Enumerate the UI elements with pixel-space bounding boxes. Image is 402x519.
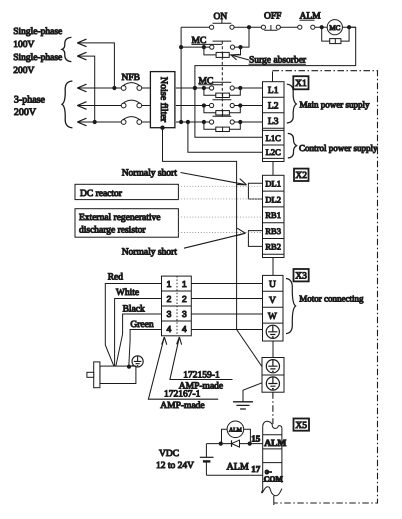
noise filter box <box>150 72 175 128</box>
arrow phase T <box>77 118 121 126</box>
svg-text:ALM: ALM <box>227 462 249 473</box>
svg-text:172159-1: 172159-1 <box>183 371 220 381</box>
wire pin15 <box>206 443 263 445</box>
wire ON rail <box>180 27 182 122</box>
wire noise filter earth <box>163 128 237 330</box>
terminal L2 <box>268 101 279 111</box>
svg-text:DL1: DL1 <box>265 179 281 189</box>
surge absorber L1 <box>204 88 240 98</box>
junction dot coil return at L1 <box>193 86 197 90</box>
label NFB <box>122 73 140 83</box>
svg-text:COM: COM <box>264 474 284 483</box>
breaker NFB pole 1 <box>121 83 150 91</box>
brace main power supply <box>287 84 297 123</box>
coil MC <box>327 20 342 35</box>
svg-text:discharge resistor: discharge resistor <box>79 225 146 235</box>
surge absorber across coil <box>322 27 349 43</box>
svg-text:External regenerative: External regenerative <box>79 213 161 223</box>
svg-text:MC: MC <box>329 24 340 32</box>
junction dot noise filter earth <box>160 126 164 130</box>
connector X5 outline <box>261 421 281 505</box>
label MC main <box>199 76 223 86</box>
wire ground block to earth <box>243 383 262 402</box>
wire coil return <box>195 27 356 88</box>
connector X5 cells <box>263 435 282 482</box>
svg-text:Noise filter: Noise filter <box>158 77 169 123</box>
box DC reactor <box>75 184 178 199</box>
label Single-phase 100V <box>13 27 62 50</box>
svg-text:White: White <box>116 288 139 298</box>
wire U phase <box>191 283 262 285</box>
dotted link resistor RB3 <box>178 232 262 234</box>
label Black wire <box>116 304 162 366</box>
junction dot motor earth <box>127 365 131 369</box>
svg-text:Single-phase: Single-phase <box>13 27 62 37</box>
svg-text:L3: L3 <box>268 117 279 127</box>
svg-text:12 to 24V: 12 to 24V <box>156 461 194 471</box>
junction dots rail <box>179 25 251 49</box>
dotted link DC reactor DL1 <box>178 185 262 187</box>
wire W phase <box>191 313 262 315</box>
label Normaly short top <box>122 168 247 185</box>
jumper RB3 RB2 <box>248 231 262 247</box>
contact ALM <box>298 12 321 30</box>
breaker NFB pole 3 <box>121 117 150 125</box>
terminal block X3 <box>263 275 284 341</box>
terminal V <box>269 296 276 306</box>
terminal L1 <box>268 86 279 96</box>
svg-text:X2: X2 <box>295 171 307 181</box>
label ALM signal <box>227 462 249 473</box>
svg-text:X3: X3 <box>295 272 307 282</box>
contact MC L3 <box>176 116 263 124</box>
wire pin4 row <box>191 329 262 331</box>
label Normaly short bottom <box>122 228 246 257</box>
arrow input 100V <box>77 39 114 88</box>
svg-text:4: 4 <box>182 324 187 334</box>
svg-text:1: 1 <box>167 279 172 289</box>
svg-text:Black: Black <box>123 304 145 314</box>
wire X1 stub to enclosure <box>272 72 274 82</box>
svg-text:AMP-made: AMP-made <box>179 382 223 392</box>
dotted link DC reactor DL2 <box>178 198 262 200</box>
svg-text:ALM: ALM <box>229 428 242 434</box>
label Main power supply <box>300 99 370 109</box>
junction dots L1 row <box>193 86 243 90</box>
label X3 <box>294 269 309 282</box>
wire pin4 to ground block diagonal <box>237 330 262 367</box>
label X1 <box>293 76 308 89</box>
svg-text:L1C: L1C <box>266 133 281 143</box>
svg-text:RB2: RB2 <box>265 242 281 252</box>
junction dots relay <box>219 442 252 446</box>
label pin O-COM <box>264 466 284 484</box>
label 172159-1 AMP-made <box>179 371 223 392</box>
svg-text:3: 3 <box>182 309 187 319</box>
junction dots input taps <box>93 86 117 124</box>
svg-text:ALM: ALM <box>264 439 286 449</box>
connector pin numbers row2 <box>167 294 187 304</box>
connector pin numbers row4 <box>167 324 187 334</box>
motor earth symbol circle <box>132 356 143 367</box>
wire V phase <box>191 298 262 300</box>
label pin number 17 <box>251 464 260 474</box>
svg-text:ON: ON <box>214 12 228 22</box>
wire pin17 <box>206 474 263 476</box>
svg-text:X1: X1 <box>295 79 307 89</box>
label Red wire <box>105 273 161 367</box>
svg-text:L1: L1 <box>268 86 279 96</box>
pushbutton ON <box>210 12 235 29</box>
label 3-phase 200V <box>14 94 46 118</box>
svg-text:V: V <box>269 296 276 306</box>
terminal W <box>268 312 277 322</box>
svg-text:100V: 100V <box>13 40 34 50</box>
svg-text:RB3: RB3 <box>265 226 281 236</box>
surge absorber L2 <box>204 106 240 116</box>
svg-text:NFB: NFB <box>122 73 140 83</box>
terminal L1C <box>266 133 281 143</box>
wire control top line <box>181 26 356 28</box>
terminal earth upper <box>266 360 279 373</box>
terminal RB1 <box>265 210 281 220</box>
contact MC L2 <box>176 100 263 108</box>
contact MC L1 <box>176 82 263 90</box>
terminal U <box>269 280 276 290</box>
arrow input single 200V <box>77 52 94 122</box>
contact MC auxiliary <box>181 27 249 49</box>
label VDC 12 to 24V <box>156 449 194 471</box>
terminal block X1 <box>263 82 285 162</box>
motor M <box>87 362 136 388</box>
svg-text:OFF: OFF <box>264 12 281 22</box>
battery VDC <box>200 444 214 476</box>
arrow phase S <box>77 102 121 110</box>
terminal L3 <box>268 117 279 127</box>
enclosure chain line <box>273 71 378 503</box>
svg-text:W: W <box>268 312 277 322</box>
terminal DL2 <box>265 194 281 204</box>
terminal DL1 <box>265 179 281 189</box>
svg-text:3-phase: 3-phase <box>14 94 46 105</box>
brace motor connecting <box>286 279 296 334</box>
svg-text:X5: X5 <box>295 421 307 431</box>
terminal L2C <box>266 147 281 157</box>
brace single-phase <box>62 37 71 61</box>
svg-text:Main power supply: Main power supply <box>300 99 370 109</box>
svg-text:Normaly short: Normaly short <box>122 247 178 257</box>
svg-text:Motor connecting: Motor connecting <box>299 294 364 304</box>
terminal RB3 <box>265 226 281 236</box>
connector motor 4x2 <box>162 276 192 336</box>
svg-text:17: 17 <box>251 464 260 474</box>
label Motor connecting <box>299 294 364 304</box>
junction dots L3 row <box>179 120 242 124</box>
wire X2 to X3 <box>272 258 274 276</box>
label X2 <box>294 169 309 182</box>
box external regenerative discharge resistor <box>75 209 178 238</box>
arrow to connector right half <box>170 337 233 380</box>
ground earth symbol <box>233 402 253 409</box>
wire L2C tap <box>188 122 263 152</box>
label pin ALM <box>264 439 286 449</box>
terminal block X2 <box>263 175 285 257</box>
svg-text:RB1: RB1 <box>265 210 281 220</box>
svg-text:L2: L2 <box>268 101 279 111</box>
brace 3-phase <box>62 81 72 128</box>
surge absorber across MC auxiliary <box>204 47 241 57</box>
terminal block ground <box>262 358 284 393</box>
svg-text:15: 15 <box>251 434 260 444</box>
svg-text:DC reactor: DC reactor <box>80 189 123 199</box>
dotted link resistor RB1 <box>178 216 262 218</box>
jumper DL1 DL2 <box>248 183 262 199</box>
pushbutton OFF <box>261 12 281 31</box>
arrow to connector left half <box>148 337 218 399</box>
arrow phase R <box>77 84 121 92</box>
svg-text:AMP-made: AMP-made <box>160 401 204 411</box>
svg-text:U: U <box>269 280 276 290</box>
wire X3 to ground block <box>272 341 274 358</box>
svg-text:1: 1 <box>182 279 187 289</box>
junction dots coil surge <box>320 25 352 29</box>
surge absorber L3 <box>204 122 240 132</box>
svg-text:2: 2 <box>182 294 187 304</box>
svg-text:2: 2 <box>167 294 172 304</box>
label Control power supply <box>299 143 378 153</box>
diode flyback <box>232 440 240 447</box>
svg-text:Green: Green <box>130 320 153 330</box>
wire X1 to X2 <box>272 162 274 176</box>
svg-text:VDC: VDC <box>159 449 179 459</box>
relay coil ALM <box>222 421 251 444</box>
wire motor earth link <box>129 365 134 366</box>
label Surge absorber <box>231 54 307 65</box>
svg-text:L2C: L2C <box>266 147 281 157</box>
junction dots L2 row <box>202 103 243 107</box>
connector pin numbers row1 <box>167 279 187 289</box>
svg-text:Single-phase: Single-phase <box>13 53 62 63</box>
label pin number 15 <box>251 434 260 444</box>
svg-text:200V: 200V <box>14 107 37 118</box>
junction dots MC auxiliary <box>202 45 243 49</box>
wire L1C tap <box>195 88 263 137</box>
svg-text:DL2: DL2 <box>265 194 281 204</box>
terminal earth X3 <box>266 325 279 338</box>
dashed link MC mechanical <box>221 41 223 117</box>
chain line ground block to X5 <box>272 392 274 424</box>
brace control power supply <box>288 133 297 158</box>
label White wire <box>115 288 162 366</box>
svg-text:Control power supply: Control power supply <box>299 143 378 153</box>
breaker NFB pole 2 <box>121 100 150 108</box>
connector pin numbers row3 <box>167 309 187 319</box>
svg-text:Normaly short: Normaly short <box>122 168 178 178</box>
svg-text:4: 4 <box>167 324 172 334</box>
label Single-phase 200V <box>13 53 62 76</box>
label X5 <box>294 419 310 432</box>
svg-text:200V: 200V <box>13 66 34 76</box>
svg-text:Red: Red <box>108 273 124 283</box>
svg-text:3: 3 <box>167 309 172 319</box>
label Green wire <box>129 320 162 366</box>
label 172167-1 AMP-made <box>160 390 204 411</box>
terminal earth lower <box>266 377 279 390</box>
terminal RB2 <box>265 242 281 252</box>
